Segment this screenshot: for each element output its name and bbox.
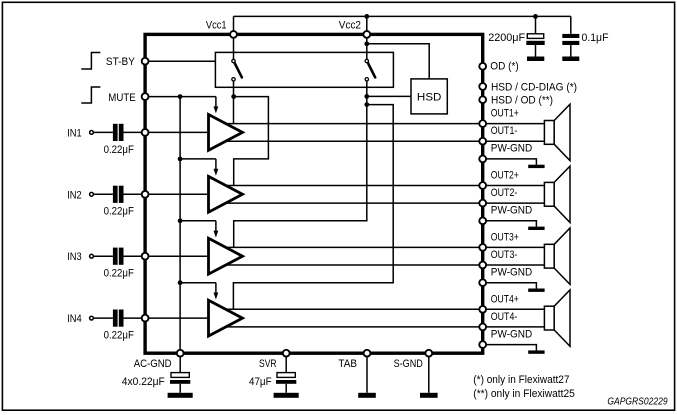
- svg-text:IN1: IN1: [67, 127, 82, 139]
- wire Vcc2 riser: [366, 16, 368, 59]
- svg-text:OUT2-: OUT2-: [491, 187, 518, 199]
- pin Vcc1: [230, 31, 237, 38]
- svg-text:IN3: IN3: [67, 251, 82, 263]
- pin OUT4-: [479, 324, 486, 331]
- op-amp A2: [209, 176, 243, 212]
- capacitor C3 0.22uF input coupling: [113, 248, 118, 265]
- pin IN3: [142, 253, 149, 260]
- pin IN4: [142, 315, 149, 322]
- ground PW-GND 3: [528, 289, 544, 292]
- HSD block: [411, 79, 447, 114]
- mute arrow into amplifier A3: [215, 221, 217, 232]
- svg-text:AC-GND: AC-GND: [134, 358, 172, 370]
- svg-text:S-GND: S-GND: [394, 358, 423, 370]
- capacitor C2 0.22uF input coupling: [113, 186, 118, 203]
- pin TAB: [364, 350, 371, 357]
- wire PW-GND 4 to ground: [483, 345, 537, 351]
- speaker LS1: [544, 121, 554, 145]
- pin OUT1-: [479, 138, 486, 145]
- pin MUTE: [142, 93, 149, 100]
- wire Vcc supply top rail: [234, 15, 571, 17]
- svg-text:(**) only in Flexiwatt25: (**) only in Flexiwatt25: [473, 388, 575, 400]
- node Vcc2 rail junction: [364, 14, 369, 19]
- ground S-GND: [420, 393, 438, 398]
- wire OUT2+ line: [226, 185, 544, 187]
- wire Vcc2 to HSD box top: [367, 44, 429, 79]
- node S2 channel-4 junction: [364, 102, 369, 107]
- svg-text:0.22μF: 0.22μF: [104, 206, 135, 218]
- wire switch S2 drop to channel 3: [234, 81, 367, 248]
- wire OUT4- line: [226, 326, 544, 328]
- IC power amplifier body: [145, 34, 483, 353]
- pin AC-GND: [177, 350, 184, 357]
- op-amp A3: [209, 238, 243, 274]
- svg-text:OUT3-: OUT3-: [491, 249, 518, 261]
- speaker LS4: [544, 306, 554, 330]
- svg-text:OUT2+: OUT2+: [491, 170, 519, 182]
- pin PW-GND 1: [479, 156, 486, 163]
- pin OUT3-: [479, 262, 486, 269]
- svg-text:OUT4-: OUT4-: [491, 311, 518, 323]
- terminal IN4: [90, 316, 94, 320]
- terminal IN1: [90, 131, 94, 135]
- wire Vcc1 riser: [233, 16, 235, 59]
- ground PW-GND 1: [528, 165, 544, 168]
- node bus junction row 4: [178, 280, 183, 285]
- node reservoir cap junction: [533, 14, 538, 19]
- capacitor C7 4x0.22uF on AC-GND: [179, 353, 181, 372]
- node mute bus junction row 1: [178, 94, 183, 99]
- ground PW-GND 4: [528, 350, 544, 353]
- wire IN1 input to amplifier A1: [93, 131, 113, 133]
- op-amp A1: [209, 115, 243, 151]
- wire PW-GND 3 to ground: [483, 283, 537, 289]
- pin OD: [479, 63, 486, 70]
- node S2 HSD junction: [364, 94, 369, 99]
- svg-text:47μF: 47μF: [249, 376, 272, 388]
- svg-text:0.22μF: 0.22μF: [104, 330, 135, 342]
- wire bus feed to amp 4 arrow: [180, 282, 216, 284]
- svg-text:TAB: TAB: [338, 358, 357, 370]
- wire ST-BY pin to switch box: [145, 60, 215, 62]
- pin PW-GND 3: [479, 279, 486, 286]
- pin OUT3+: [479, 244, 486, 251]
- op-amp A4: [209, 300, 243, 336]
- wire S2 jog to channel 4: [233, 105, 393, 310]
- svg-text:MUTE: MUTE: [108, 92, 135, 104]
- capacitor C8 47uF on SVR: [285, 353, 287, 372]
- ground for C5: [527, 57, 544, 62]
- ground PW-GND 2: [528, 227, 544, 230]
- pin SVR: [283, 350, 290, 357]
- wire S-GND to ground: [428, 353, 430, 393]
- switch S1 ST-BY: [232, 59, 235, 62]
- pin PW-GND 4: [479, 341, 486, 348]
- svg-text:OUT1-: OUT1-: [491, 125, 518, 137]
- wire AC-GND bus vertical: [179, 97, 181, 354]
- wire OUT2- line: [226, 202, 544, 204]
- svg-text:HSD: HSD: [417, 92, 442, 104]
- node bus junction row 3: [178, 218, 183, 223]
- switch S2 MUTE: [365, 59, 368, 62]
- pin Vcc2: [363, 31, 370, 38]
- svg-text:0.1μF: 0.1μF: [582, 32, 609, 44]
- switch unit box: [215, 52, 393, 87]
- pin HSD / OD: [479, 96, 486, 103]
- ground TAB: [358, 393, 376, 398]
- svg-text:OUT4+: OUT4+: [491, 293, 519, 305]
- terminal IN2: [90, 192, 94, 196]
- svg-text:IN4: IN4: [67, 313, 82, 325]
- wire bus feed to amp 3 arrow: [180, 220, 216, 222]
- svg-text:Vcc1: Vcc1: [206, 20, 227, 32]
- wire TAB to ground: [366, 353, 368, 393]
- svg-text:PW-GND: PW-GND: [491, 266, 532, 278]
- svg-text:4x0.22μF: 4x0.22μF: [122, 376, 165, 388]
- step waveform symbol MUTE: [81, 87, 100, 103]
- svg-text:PW-GND: PW-GND: [491, 143, 532, 155]
- svg-text:PW-GND: PW-GND: [491, 328, 532, 340]
- pin OUT2-: [479, 200, 486, 207]
- pin OUT1+: [479, 120, 486, 127]
- wire OUT3- line: [226, 264, 544, 266]
- svg-text:0.22μF: 0.22μF: [104, 268, 135, 280]
- mute arrow into amplifier A1: [215, 97, 217, 108]
- wire MUTE pin to mute arrow channel 1: [145, 96, 216, 98]
- terminal IN3: [90, 254, 94, 258]
- svg-text:ST-BY: ST-BY: [106, 56, 136, 68]
- mute arrow into amplifier A4: [215, 283, 217, 294]
- svg-text:OUT1+: OUT1+: [491, 108, 519, 120]
- pin HSD / CD-DIAG: [479, 83, 486, 90]
- svg-text:Vcc2: Vcc2: [339, 20, 361, 32]
- capacitor C4 0.22uF input coupling: [113, 310, 118, 327]
- svg-text:HSD / OD (**): HSD / OD (**): [491, 95, 553, 107]
- wire PW-GND 2 to ground: [483, 221, 537, 227]
- wire S2 to HSD box: [367, 95, 411, 97]
- wire OUT3+ line: [226, 246, 544, 248]
- node switch S1 / mute line junction: [231, 94, 236, 99]
- pin S-GND: [425, 350, 432, 357]
- mute arrow into amplifier A2: [215, 159, 217, 170]
- pin OUT2+: [479, 182, 486, 189]
- pin IN2: [142, 191, 149, 198]
- step waveform symbol ST-BY: [81, 53, 100, 70]
- wire PW-GND 1 to ground: [483, 159, 537, 165]
- speaker LS3: [544, 244, 554, 268]
- wire zigzag S1 to channel 2: [234, 97, 269, 186]
- svg-text:IN2: IN2: [67, 189, 82, 201]
- svg-text:(*) only in Flexiwatt27: (*) only in Flexiwatt27: [473, 374, 569, 386]
- ground for C8: [274, 393, 299, 398]
- wire IN4 input to amplifier A4: [93, 317, 113, 319]
- svg-text:PW-GND: PW-GND: [491, 205, 532, 217]
- wire bus feed to amp 2 arrow: [180, 158, 216, 160]
- pin IN1: [142, 129, 149, 136]
- svg-text:OD (*): OD (*): [490, 60, 518, 72]
- wire IN2 input to amplifier A2: [93, 193, 113, 195]
- wire OUT1- line: [226, 140, 544, 142]
- ground for C7: [168, 393, 193, 398]
- svg-text:2200μF: 2200μF: [488, 32, 525, 44]
- svg-text:SVR: SVR: [259, 358, 277, 370]
- node bus junction row 2: [178, 157, 183, 162]
- capacitor C5 2200uF electrolytic: [535, 16, 537, 33]
- wire switch S1 output drop to OUT1+ node: [233, 81, 235, 124]
- pin OUT4+: [479, 306, 486, 313]
- pin PW-GND 2: [479, 217, 486, 224]
- pin ST-BY: [142, 58, 149, 65]
- ground for C6: [562, 57, 579, 62]
- wire OUT4+ line: [226, 308, 544, 310]
- wire OUT1+ line: [226, 123, 544, 125]
- wire IN3 input to amplifier A3: [93, 255, 113, 257]
- speaker LS2: [544, 182, 554, 206]
- svg-text:GAPGRS02229: GAPGRS02229: [607, 396, 667, 408]
- svg-text:OUT3+: OUT3+: [491, 231, 519, 243]
- node Vcc2 HSD supply junction: [364, 41, 369, 46]
- capacitor C6 0.1uF: [570, 16, 572, 34]
- svg-text:0.22μF: 0.22μF: [104, 144, 135, 156]
- svg-text:HSD / CD-DIAG (*): HSD / CD-DIAG (*): [491, 81, 577, 93]
- capacitor C1 0.22uF input coupling: [113, 124, 118, 141]
